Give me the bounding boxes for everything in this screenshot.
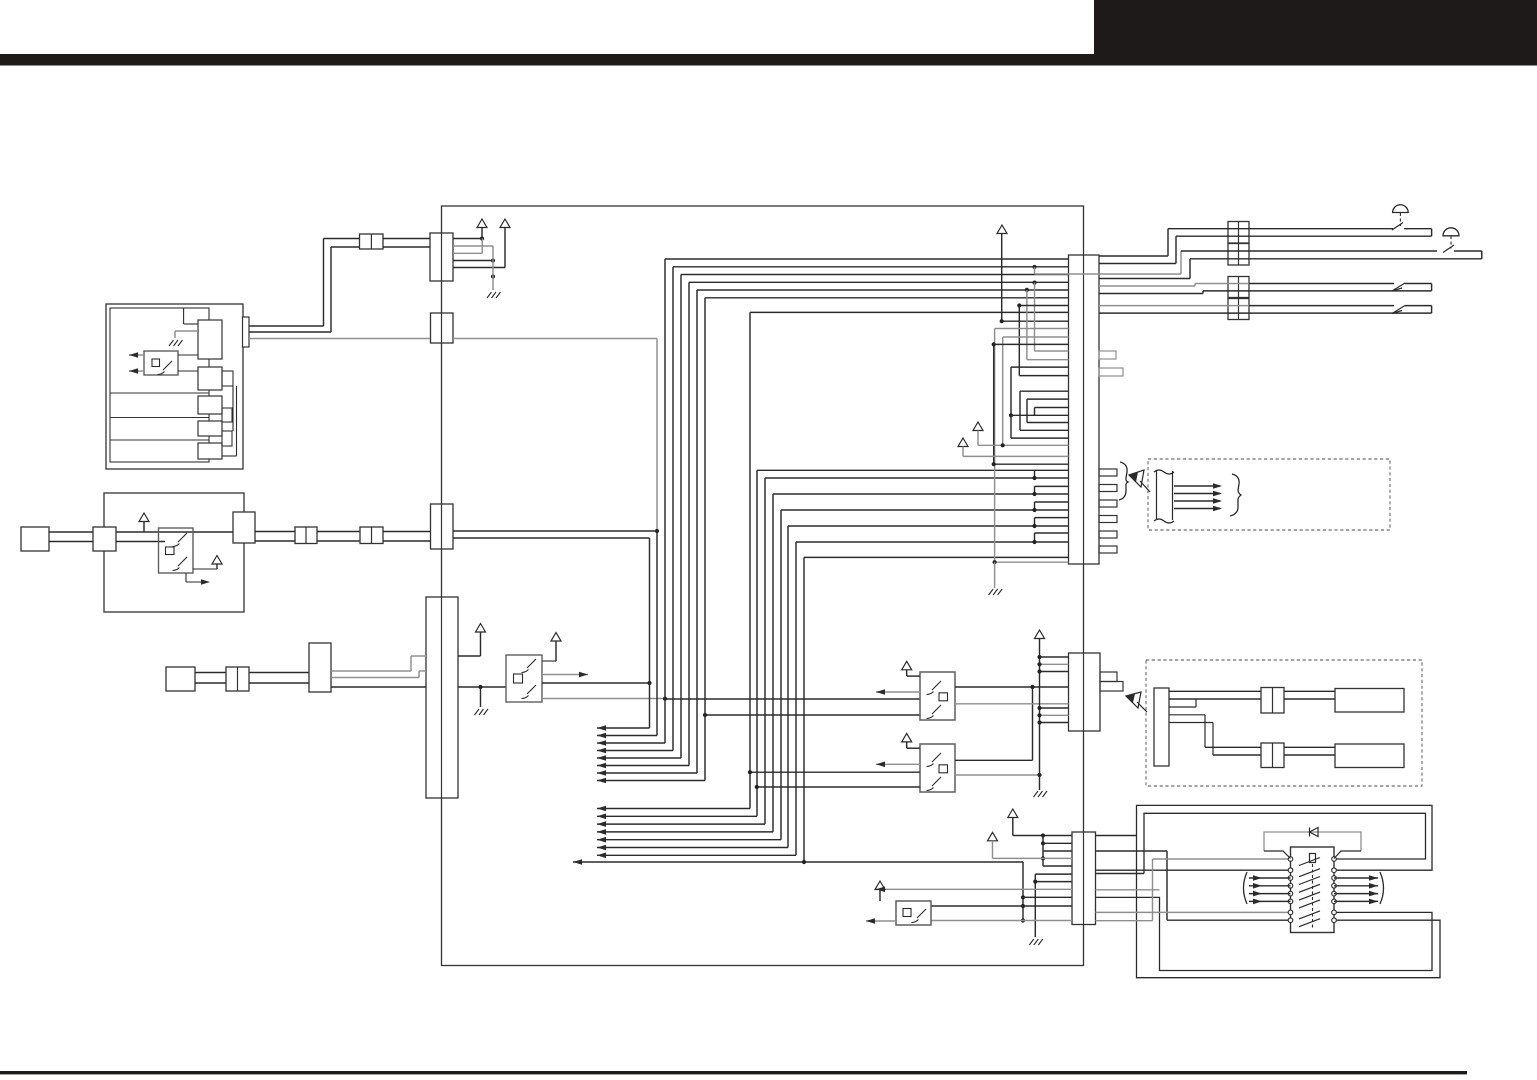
CN10 pin stub box 4 — [1099, 516, 1117, 523]
bundle-B arrow row 6 — [597, 847, 788, 849]
loop wire rectC — [1096, 897, 1433, 970]
gray wire y274 through CN10 — [1035, 273, 1182, 275]
wire PC3 out y698 gray part — [542, 698, 665, 700]
bundle-B arrow row 5 — [597, 839, 781, 841]
wire PC5 out riser — [1032, 687, 1034, 760]
VCC triangle T1 — [1008, 809, 1018, 818]
CN10 pin stub box 3 — [1099, 500, 1117, 507]
cable3 joint — [1392, 283, 1405, 291]
optocoupler PC1 — [144, 351, 178, 375]
terminal square left — [21, 527, 49, 551]
weave pin y407 — [1035, 407, 1069, 409]
wire into PC2 lower — [116, 541, 165, 543]
relay right arrow 3 — [1334, 893, 1378, 895]
relay contact arm 3 — [1299, 877, 1320, 885]
bundle-B arrow row 4 — [597, 831, 773, 833]
cable2 top wire — [1181, 250, 1437, 252]
CN12 pin y874 — [1035, 873, 1072, 875]
CN11 stub b — [1100, 682, 1123, 692]
wire pair left-unit to CN: lower — [249, 331, 331, 333]
wire y715 to PC4 — [705, 714, 920, 716]
inline connector cable3 — [1228, 277, 1249, 298]
relay contact arm 2 — [1299, 869, 1320, 877]
PC1 wire out 2 — [129, 370, 144, 372]
VCC triangle F — [551, 633, 561, 642]
relay contact arm 6 — [1299, 900, 1320, 908]
weave pin y399 — [1027, 398, 1069, 400]
bottom rule — [0, 1071, 1467, 1074]
cable1 bottom wire — [1176, 235, 1432, 237]
relay pin R5 — [1332, 891, 1337, 896]
box2 bottom cable wire 1 — [1205, 746, 1261, 748]
connector CN top-left (on board edge) — [430, 233, 453, 281]
long wire row y862 — [573, 861, 1023, 863]
CN12 pin y897 — [1023, 896, 1072, 898]
bundle-A vertical 7 — [696, 290, 698, 773]
wire gray step 2 — [331, 677, 419, 679]
bundle-B vertical 5 — [780, 510, 782, 840]
bundle-A vertical 5 — [680, 275, 682, 759]
dashed box1 arrow 4 — [1174, 508, 1220, 510]
cable bundle bar (dashed box1) — [1154, 470, 1174, 523]
wire PC3 out y683 — [542, 682, 650, 684]
left unit divider 1 — [110, 392, 209, 394]
CN12 pin y851 — [1043, 850, 1072, 852]
device box bottom (dashed box2) — [1335, 744, 1404, 768]
relay pin L2 — [1288, 868, 1293, 873]
relay pin L5 — [1288, 891, 1293, 896]
CN pin 1 wire — [453, 238, 482, 240]
CN11 left pin 1 — [1040, 656, 1069, 658]
relay left arrow 3 — [1249, 893, 1291, 895]
wire bundleB-v1 to PC5 — [750, 771, 920, 773]
weave gray pin y351 — [1035, 350, 1069, 352]
bundle-B arrow row 7 — [597, 854, 796, 856]
VCC triangle H — [902, 733, 912, 742]
relay pin L4 — [1288, 884, 1293, 889]
relay pin L8 — [1288, 918, 1293, 923]
optocoupler PC6 — [896, 901, 931, 925]
dashed box1 arrow 1 — [1174, 485, 1220, 487]
dashed box1 arrow 2 — [1174, 493, 1220, 495]
CN12 bus x1035 — [1034, 874, 1036, 937]
connector CN10 right tall (on board edge) — [1069, 255, 1100, 564]
wire pair sq-conn lower — [49, 541, 93, 543]
weave gray pin y562 — [995, 561, 1069, 563]
device box top (dashed box2) — [1335, 689, 1404, 713]
inline connector box2 bottom — [1261, 743, 1284, 768]
companion stub box a — [222, 371, 233, 386]
optocoupler PC5 — [920, 744, 955, 792]
wire pair inlineB-CN2 upper — [383, 531, 431, 533]
relay pin R6 — [1332, 899, 1337, 904]
VCC triangle T2 — [988, 832, 998, 841]
wire gray step 1 — [331, 670, 411, 672]
gray wire PC6 out y920 — [931, 920, 1072, 922]
CN11 left pin 6 — [1040, 722, 1069, 724]
VCC triangle J top — [997, 225, 1007, 234]
CN11 left pin 4 — [1040, 707, 1069, 709]
wire pair inlineA-inlineB upper — [317, 531, 360, 533]
box2 top cable wire 2 — [1169, 698, 1261, 700]
PC1 link to column upper — [178, 354, 198, 356]
VCC triangle L — [958, 438, 968, 447]
cable3 step lower — [1099, 293, 1203, 295]
connector bar CN3 (tall, on board edge) — [426, 597, 458, 798]
weave vertical x993 — [993, 344, 995, 464]
relay contact arm 5 — [1299, 892, 1320, 900]
wire pair inline-conn upper — [249, 672, 309, 674]
box2 bottom cable wire 2 — [1213, 754, 1261, 756]
brace left of relay — [1244, 872, 1248, 904]
bundle-M jog tie 1 — [1034, 470, 1036, 478]
wire CN12 y870 to relay — [1096, 869, 1291, 871]
bundle-L wire 1 horizontal — [665, 258, 1069, 260]
bundle-L wire 4 horizontal — [689, 281, 1069, 283]
bundle-B vertical 1 (from bundle-L wire 7) — [749, 312, 751, 808]
wire to device bottom — [1284, 746, 1335, 748]
relay left arrow 4 — [1249, 900, 1291, 902]
PC1 wire out 1 — [129, 354, 144, 356]
cable2 switch — [1443, 245, 1454, 253]
box2 jog 3 — [1169, 722, 1213, 724]
connector block lower-left — [309, 643, 331, 692]
PC3 gray arrow out — [542, 674, 588, 676]
bundle-A arrow row 3 — [597, 742, 665, 744]
CN12 pin y881 — [1035, 881, 1072, 883]
left unit divider 3 — [110, 439, 209, 441]
bundle-M jog pin 4 — [1035, 517, 1069, 519]
connector column box 2 — [198, 367, 222, 390]
VCC triangle I over CN11 — [1035, 630, 1045, 639]
VCC triangle A — [477, 219, 487, 228]
VCC triangle K — [973, 422, 983, 431]
cable1 step lower — [1099, 263, 1176, 265]
weave pin y464 — [994, 463, 1069, 465]
bundle-B vertical 2 — [756, 470, 758, 816]
bundle-B arrow row 3 — [597, 823, 765, 825]
box2 jog 2 — [1169, 714, 1205, 716]
inline connector top-left — [360, 234, 384, 249]
inline connector lower-left — [226, 667, 249, 691]
relay pin L1 — [1288, 857, 1293, 862]
relay coil loop with diode — [1264, 832, 1361, 851]
weave pin y415 — [1011, 414, 1069, 416]
unit box 2 — [104, 493, 244, 612]
connector column box 4 — [198, 421, 222, 436]
bundle-M wire 7 horizontal — [804, 556, 1069, 558]
wire box1 pin up — [184, 323, 198, 325]
weave pin y422 — [1027, 422, 1069, 424]
ground under weave — [994, 562, 996, 588]
bundle-A vertical 8 — [704, 298, 706, 781]
VCC triangle C — [139, 513, 149, 522]
dashed detail box 2 — [1146, 660, 1422, 786]
CN12 pin y906 (from PC6) — [931, 905, 1072, 907]
weave pin y305 — [1019, 305, 1068, 307]
VCC triangle G — [902, 661, 912, 670]
ground under CN11 bus — [1034, 791, 1048, 797]
weave gray vertical x994 — [994, 329, 996, 563]
CN10 pin stub box 5 — [1099, 531, 1117, 538]
cable3 top wire — [1195, 283, 1249, 285]
CN10 pin stub box 6 — [1099, 546, 1117, 553]
long wire drop x1023 — [1022, 862, 1024, 921]
bundle-A arrow row 7 — [597, 772, 697, 774]
relay pin R7 — [1332, 910, 1337, 915]
header black bar — [0, 54, 1537, 66]
weave pin y367 — [1011, 366, 1069, 368]
cable2 bottom wire — [1190, 258, 1482, 260]
wire gray net A left — [249, 338, 430, 340]
VCC triangle D — [212, 556, 222, 565]
wire CN2 out y531 — [453, 530, 657, 532]
box2 top cable wire 1 — [1169, 690, 1261, 692]
gray wire y456 — [963, 455, 1069, 457]
bundle-B arrow row 1 — [597, 808, 750, 810]
relay right arrow 2 — [1334, 885, 1378, 887]
gray wire y445 — [978, 444, 1069, 446]
weave dot line5 gray drop — [1025, 288, 1029, 292]
wire CN12 to rectA riser — [1096, 835, 1137, 837]
CN pin 5 wire — [453, 267, 505, 269]
relay pin R2 — [1332, 868, 1337, 873]
wire pair conn-inlineA lower — [255, 540, 295, 542]
weave dot line4 gray drop — [1032, 281, 1036, 285]
wire inline to CN lower — [383, 246, 430, 248]
bundle-M wire 6 horizontal — [796, 541, 1069, 543]
connector on unit2 left edge — [93, 527, 116, 551]
gray pin bus — [492, 246, 494, 290]
relay contact arm 8 — [1299, 919, 1320, 927]
PC2 small arrow out — [185, 573, 187, 582]
weave bracket x1027 — [1026, 399, 1028, 422]
weave gray pin y328 — [995, 328, 1069, 330]
CN10 stub gray a — [1099, 351, 1116, 359]
bundle-L wire 2 horizontal — [673, 266, 1069, 268]
gray arrow wire y889 — [876, 888, 1072, 890]
bell symbol cable1 — [1393, 205, 1409, 213]
bundle-B vertical 3 — [764, 478, 766, 824]
edge connector small (left unit) — [243, 317, 250, 347]
bundle-B arrow row 2 — [597, 815, 757, 817]
weave pin y375 — [1019, 375, 1068, 377]
bundle-M wire 2 horizontal — [765, 477, 1069, 479]
connector bar (dashed box2) — [1154, 688, 1169, 766]
bundle-L wire 7 horizontal — [750, 311, 1069, 313]
bundle-A arrow row 4 — [597, 750, 673, 752]
CN11 left pin 5 — [1040, 714, 1069, 716]
weave vertical x1019 — [1018, 306, 1020, 376]
connector column box 1 — [198, 320, 222, 359]
wire PC4 gray out — [955, 703, 1069, 705]
relay pin L7 — [1288, 910, 1293, 915]
inline connector A mid — [295, 527, 317, 544]
CN12 pin y866 — [1043, 865, 1072, 867]
cable1 step upper — [1099, 255, 1168, 257]
loop wire rectB — [1144, 813, 1426, 873]
gray wire CN12 y890 stub — [1096, 889, 1160, 891]
CN11 stub a — [1100, 672, 1117, 682]
CN12 tie vertical x1043 — [1042, 836, 1044, 867]
connector CN2 left (on board edge) — [431, 504, 454, 549]
CN12 pin y843 — [1043, 842, 1072, 844]
relay right arrow 4 — [1334, 900, 1378, 902]
wire T1 to CN12 — [1013, 835, 1072, 837]
gray wire CN12 y920 riser — [1096, 920, 1153, 922]
CN pin 3 wire — [453, 252, 482, 254]
relay armature dashed — [1312, 864, 1314, 928]
relay contact arm 7 — [1299, 911, 1320, 919]
left unit box outer — [106, 304, 243, 469]
weave bracket x1011 — [1010, 367, 1012, 438]
bundle-A arrow row 1 — [597, 727, 650, 729]
wire pair sq-inline lower — [195, 682, 226, 684]
wire gray net A drop — [656, 339, 658, 532]
gray wire T2 to CN12 — [993, 857, 1073, 859]
bundle-M jog pin 3 — [1035, 501, 1069, 503]
inline connector B mid — [360, 527, 383, 544]
bundle-M wire 1 horizontal — [757, 469, 1069, 471]
connector CN11 mid right (on board edge) — [1069, 653, 1101, 731]
inline connector box2 top — [1261, 688, 1284, 714]
optocoupler PC2 — [159, 528, 194, 573]
companion stub box b — [222, 408, 232, 422]
dashed box1 arrow 3 — [1174, 500, 1220, 502]
wire bundleB-v2 to PC5 — [757, 786, 920, 788]
cable1 switch — [1392, 223, 1403, 231]
CN pin 4 wire — [453, 260, 493, 262]
relay pin R1 — [1332, 857, 1337, 862]
wire PC4 out to CN11 — [955, 686, 1069, 688]
gray wire CN12 y912 to relay — [1096, 911, 1291, 913]
wire to device top — [1284, 690, 1335, 692]
relay pin L3 — [1288, 876, 1293, 881]
ground under CN12 bus — [1029, 939, 1043, 945]
connector CN12 bottom right (on board edge) — [1072, 832, 1096, 925]
relay pin L6 — [1288, 899, 1293, 904]
wire gray net A right — [453, 338, 657, 340]
connector on unit2 right edge — [233, 512, 255, 543]
cursor arrow at CN10 — [1129, 470, 1150, 492]
left unit divider 2 — [110, 417, 209, 419]
bundle-A arrow row 2 — [597, 735, 657, 737]
dashed detail box 1 — [1148, 459, 1390, 530]
wire CN2 out y538 — [453, 537, 650, 539]
PC6 gray arrow out — [866, 920, 896, 922]
inline connector cable1 — [1228, 222, 1249, 244]
relay contact arm 4 — [1299, 884, 1320, 892]
weave gray pin y337 — [1003, 336, 1069, 338]
cable3 step upper — [1099, 285, 1195, 287]
relay contact arm 1 — [1299, 858, 1320, 866]
companion stub box c — [222, 431, 232, 446]
optocoupler PC4 — [920, 672, 955, 720]
bundle-A vertical 4 — [672, 267, 674, 751]
bundle-A vertical 6 — [688, 282, 690, 765]
big loop wire rectA/rectD — [1137, 805, 1441, 977]
wire inline to CN upper — [383, 238, 430, 240]
main board outline — [442, 206, 1084, 966]
connector column box 3 — [198, 396, 222, 414]
bundle-M wire 4 horizontal — [781, 509, 1069, 511]
PC5 gray arrow out — [876, 763, 920, 765]
CN pin 2 wire — [453, 245, 493, 247]
weave gray vertical x1002b — [1002, 337, 1004, 445]
PC4 gray arrow out — [876, 691, 920, 693]
left unit box inner — [110, 308, 209, 462]
bundle-B vertical 6 — [787, 526, 789, 848]
relay coil — [1310, 854, 1316, 863]
wire bar to PC3 — [458, 686, 506, 688]
cable3 bottom wire — [1203, 290, 1432, 292]
relay RY1 body — [1291, 847, 1335, 933]
wire CN12 pin to rectB — [1096, 873, 1145, 875]
bundle-M wire 3 horizontal — [773, 493, 1069, 495]
bundle-A vertical 1 (from CN2 y538) — [649, 538, 651, 728]
cable4 joint — [1392, 306, 1405, 314]
weave pin y391 — [1020, 390, 1069, 392]
weave pin y430 — [1020, 429, 1069, 431]
diode D1 — [1310, 828, 1319, 837]
cursor arrow at CN11 — [1126, 692, 1147, 712]
wire pair inlineA-inlineB lower — [317, 540, 360, 542]
bundle-A arrow row 8 — [597, 780, 705, 782]
wire black to bar — [331, 686, 426, 688]
relay left arrow 1 — [1249, 877, 1291, 879]
wire pair sq-conn upper — [49, 531, 93, 533]
wire pair inline-conn lower — [249, 682, 309, 684]
wire PC5 gray out — [955, 774, 1040, 776]
bell symbol cable2 — [1443, 228, 1459, 236]
weave dot line2 gray drop — [1032, 265, 1036, 269]
VCC triangle B — [500, 219, 510, 228]
header black corner box — [1094, 0, 1537, 56]
CN11 left pin 3 — [1040, 671, 1069, 673]
inline connector cable4 — [1228, 299, 1249, 320]
brace right of relay — [1380, 872, 1384, 904]
relay right arrow 1 — [1334, 877, 1378, 879]
brace right of CN10 stubs — [1119, 462, 1128, 500]
stub bus wire b — [236, 386, 238, 456]
wire y698 black part to PC4 — [665, 698, 920, 700]
CN10 pin stub box 2 — [1099, 485, 1117, 492]
weave pin y344 — [994, 343, 1069, 345]
wire CN12 y851 to relay row8 — [1096, 850, 1168, 852]
bundle-M jog pin 5 — [1035, 532, 1069, 534]
cable4 top wire — [1099, 305, 1249, 307]
CN10 stub gray b — [1099, 368, 1123, 376]
cable4 bottom wire — [1099, 312, 1432, 314]
CN11 feed vertical — [1039, 639, 1041, 791]
bundle-M wire 5 horizontal — [788, 525, 1069, 527]
relay pin R8 — [1332, 918, 1337, 923]
cable2 step upper — [1180, 251, 1182, 274]
bundle-A arrow row 5 — [597, 757, 681, 759]
weave bracket x1034 — [1034, 408, 1036, 416]
bundle-B vertical 4 — [772, 494, 774, 832]
CN10 pin stub box 1 — [1099, 469, 1117, 476]
bundle-A vertical 3 — [664, 259, 666, 743]
VCC triangle T3 — [875, 881, 885, 890]
optocoupler PC3 — [506, 655, 542, 702]
bundle-L wire 6 horizontal — [705, 297, 1069, 299]
stub bus wire a — [232, 386, 234, 431]
VCC triangle E — [476, 624, 486, 633]
terminal square lower-left — [166, 667, 195, 691]
relay pin R3 — [1332, 876, 1337, 881]
inline connector cable2 — [1228, 244, 1249, 266]
